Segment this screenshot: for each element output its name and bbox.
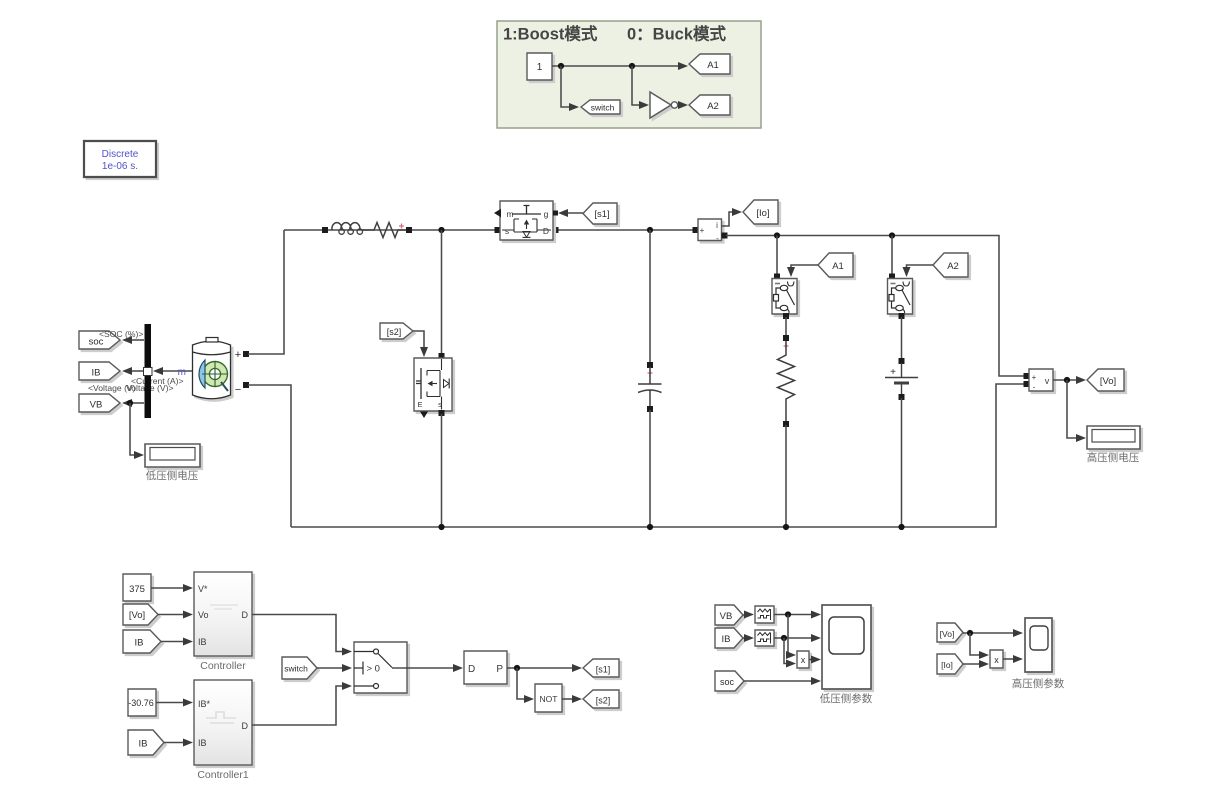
from tag IB scope xyxy=(715,628,745,650)
svg-text:D: D xyxy=(543,226,549,236)
subsystem Controller xyxy=(194,572,254,658)
svg-text:A1: A1 xyxy=(707,60,719,71)
svg-text:[s2]: [s2] xyxy=(596,696,611,706)
wire bus to soc xyxy=(122,336,144,344)
goto tag [Vo] xyxy=(1087,369,1126,393)
wire rail to breaker1 xyxy=(774,236,780,280)
svg-text:IB: IB xyxy=(92,368,101,379)
series resistor zigzag xyxy=(362,223,406,238)
node junction xyxy=(438,524,444,530)
battery - port xyxy=(235,382,249,396)
wire NOT to A2 xyxy=(678,101,688,109)
wire node to mosfet M2 xyxy=(441,230,443,355)
port xyxy=(899,313,905,319)
svg-text:VB: VB xyxy=(90,400,103,411)
goto tag [s2] lower xyxy=(583,690,621,710)
rate transition block D P xyxy=(464,651,509,686)
svg-text:NOT: NOT xyxy=(540,694,558,704)
wire resistor to bottom rail xyxy=(785,425,787,527)
svg-text:[Io]: [Io] xyxy=(941,660,953,670)
wire breaker1 to resistor xyxy=(783,317,789,341)
caption 低压侧参数 xyxy=(820,692,873,705)
goto tag A1 xyxy=(818,253,855,279)
from tag IB lower xyxy=(123,630,163,655)
port xyxy=(783,313,789,319)
port xyxy=(439,353,445,359)
from tag soc scope xyxy=(715,671,746,693)
display block low-voltage-side xyxy=(145,444,202,469)
node junction xyxy=(647,227,653,233)
svg-text:IB: IB xyxy=(139,739,148,750)
wire dc source to bottom rail xyxy=(901,398,903,527)
logical operator NOT xyxy=(535,684,564,714)
svg-text:IB: IB xyxy=(722,634,731,645)
svg-text:+: + xyxy=(235,349,241,361)
from tag [Vo] scope xyxy=(937,623,965,644)
node junction xyxy=(647,524,653,530)
goto tag A2 (legend) xyxy=(689,95,732,117)
mosfet M2 block xyxy=(414,358,454,418)
wire VB to mean1 xyxy=(743,611,754,619)
wire battery m to bus selector xyxy=(153,367,192,375)
port xyxy=(647,406,653,412)
svg-text:IB: IB xyxy=(135,638,144,649)
wire VB branch to product xyxy=(786,615,796,660)
svg-text:[Io]: [Io] xyxy=(756,208,769,219)
scope block low side xyxy=(822,605,873,691)
capacitor C xyxy=(638,367,662,409)
goto tag A1 (legend) xyxy=(689,54,732,76)
port xyxy=(439,410,445,416)
goto tag switch (legend) xyxy=(581,100,622,116)
breaker block A2 xyxy=(888,279,915,317)
svg-text:v: v xyxy=(1045,376,1050,386)
wire IB to controller xyxy=(161,638,193,646)
svg-text:[s1]: [s1] xyxy=(594,209,609,220)
svg-text:1:Boost模式: 1:Boost模式 xyxy=(503,24,598,44)
wire P to [s1] xyxy=(507,664,582,672)
mosfet M1 block xyxy=(494,201,555,242)
caption 高压侧参数 xyxy=(1012,677,1065,690)
bus selector bar xyxy=(144,324,153,418)
battery block xyxy=(193,338,233,402)
port xyxy=(1024,381,1030,387)
port xyxy=(722,233,728,239)
caption Controller xyxy=(200,660,246,672)
wire mean1 to scope xyxy=(774,611,821,619)
goto tag [s1] lower xyxy=(583,659,621,679)
wire battery plus to top rail xyxy=(248,230,284,354)
svg-text:-30.76: -30.76 xyxy=(128,698,154,708)
scope block high side xyxy=(1025,618,1054,674)
goto tag soc xyxy=(79,331,122,351)
wire controller1 D to switch xyxy=(252,682,352,725)
from tag [s2] xyxy=(380,323,415,341)
svg-text:高压侧电压: 高压侧电压 xyxy=(1087,451,1140,464)
svg-text:soc: soc xyxy=(720,677,735,687)
wire product to scope xyxy=(809,656,821,664)
display block high-voltage-side xyxy=(1087,426,1142,451)
wire [s1] to gate g xyxy=(553,209,583,217)
from tag [Io] xyxy=(743,200,780,226)
svg-text:Vo: Vo xyxy=(198,610,209,620)
svg-text:375: 375 xyxy=(129,584,145,595)
product block x xyxy=(797,651,811,670)
wire A2 to breaker2 control xyxy=(903,265,934,277)
wire switch to D-P block xyxy=(407,664,463,672)
wire NOT to [s2] xyxy=(562,695,582,703)
polarity mark xyxy=(399,224,404,229)
port label m xyxy=(178,367,186,378)
svg-text:switch: switch xyxy=(284,664,308,674)
svg-text:低压侧参数: 低压侧参数 xyxy=(820,692,873,705)
signal label Voltage xyxy=(88,383,174,393)
node junction xyxy=(898,524,904,530)
svg-text:D: D xyxy=(468,664,475,675)
svg-text:IB: IB xyxy=(198,738,207,748)
from tag [s1] top xyxy=(583,203,619,226)
wire rail to breaker2 xyxy=(889,236,895,280)
svg-text:i: i xyxy=(716,221,718,230)
node junction xyxy=(889,232,895,238)
polarity mark xyxy=(784,344,789,349)
svg-text:P: P xyxy=(496,664,503,675)
subsystem Controller1 xyxy=(194,680,254,767)
powergui Discrete block xyxy=(84,141,158,179)
svg-text:[s1]: [s1] xyxy=(596,665,611,675)
svg-text:VB: VB xyxy=(720,611,733,622)
from tag VB scope xyxy=(715,605,745,627)
wire to switch tag xyxy=(561,66,579,111)
wire constant 1 to A1 xyxy=(552,62,688,70)
wire switch tag to switch block xyxy=(317,664,352,672)
svg-text:[Vo]: [Vo] xyxy=(1100,376,1116,387)
svg-text:[s2]: [s2] xyxy=(387,327,402,337)
svg-text:A2: A2 xyxy=(707,101,719,112)
svg-text:+: + xyxy=(1032,373,1037,382)
voltage measurement block xyxy=(1029,369,1055,393)
svg-text:> 0: > 0 xyxy=(367,664,380,675)
wire battery minus to bottom rail xyxy=(248,385,291,527)
svg-text:-: - xyxy=(1033,383,1036,392)
svg-text:s: s xyxy=(438,400,442,409)
wire M2 to bottom rail xyxy=(441,414,443,527)
wire sensor i to [Io] xyxy=(722,208,743,226)
node junction on wire xyxy=(558,63,564,69)
port xyxy=(322,227,328,233)
svg-text:IB: IB xyxy=(198,637,207,647)
from tag [Vo] lower xyxy=(123,604,160,627)
signal label SOC xyxy=(99,329,143,339)
wire 375 to controller xyxy=(151,584,193,592)
port xyxy=(693,227,699,233)
port xyxy=(1024,373,1030,379)
svg-text:高压侧参数: 高压侧参数 xyxy=(1012,677,1065,690)
product block x 2 xyxy=(990,650,1005,670)
port s xyxy=(495,227,501,233)
svg-text:-: - xyxy=(716,234,719,243)
wire mean2 to scope xyxy=(774,634,821,642)
port xyxy=(406,227,412,233)
wire controller D to switch xyxy=(252,615,352,656)
svg-text:Discrete: Discrete xyxy=(102,149,139,160)
inductor coil xyxy=(332,223,363,235)
svg-text:switch: switch xyxy=(591,103,615,113)
wire v to [Vo] xyxy=(1053,376,1086,384)
dc voltage source xyxy=(885,363,918,397)
current measurement block xyxy=(698,219,724,243)
wire IB to mean2 xyxy=(743,634,754,642)
svg-text:A1: A1 xyxy=(832,261,844,272)
goto tag IB xyxy=(79,362,122,382)
svg-text:[Vo]: [Vo] xyxy=(940,629,955,639)
wire A1 to breaker1 control xyxy=(787,265,818,277)
svg-text:+: + xyxy=(700,226,705,235)
svg-text:A2: A2 xyxy=(947,261,959,272)
from tag switch lower xyxy=(282,657,319,681)
mean block 1 xyxy=(755,606,776,625)
wire -30.76 to controller1 xyxy=(156,699,193,707)
wire v to display2 xyxy=(1067,380,1086,442)
polarity mark xyxy=(648,371,653,376)
wire top rail right xyxy=(726,236,1026,377)
wire IB branch to product xyxy=(784,638,796,668)
svg-text:s: s xyxy=(505,226,509,236)
signal label Current xyxy=(131,376,184,386)
svg-text:D: D xyxy=(242,610,249,620)
wire bus to IB xyxy=(122,367,144,375)
svg-text:1: 1 xyxy=(537,62,543,73)
svg-text:[Vo]: [Vo] xyxy=(129,610,145,621)
node junction on wire xyxy=(629,63,635,69)
port D xyxy=(553,227,559,233)
wire capacitor to bottom rail xyxy=(649,410,651,527)
caption 低压侧电压 xyxy=(146,469,199,482)
wire to NOT gate xyxy=(632,66,649,109)
wire soc to scope xyxy=(744,677,821,685)
svg-text:E: E xyxy=(417,400,422,409)
wire [Io] to product2 xyxy=(963,660,989,668)
caption Controller1 xyxy=(197,769,249,781)
svg-text:x: x xyxy=(801,655,806,665)
node junction xyxy=(783,524,789,530)
wire bus to VB xyxy=(122,399,144,407)
wire breaker2 to dc source xyxy=(899,317,905,364)
battery + port xyxy=(235,349,249,361)
svg-text:x: x xyxy=(994,655,999,665)
svg-text:0：Buck模式: 0：Buck模式 xyxy=(627,24,727,44)
wire VB branch to display xyxy=(127,400,144,459)
wire [Vo] to scope2 xyxy=(963,629,1023,637)
svg-text:<SOC (%)>: <SOC (%)> xyxy=(99,329,143,339)
wire IB to controller1 xyxy=(164,739,193,747)
svg-text:V*: V* xyxy=(198,584,208,594)
port xyxy=(647,362,653,368)
mean block 2 xyxy=(755,630,776,648)
port xyxy=(783,421,789,427)
switch block xyxy=(354,642,409,695)
load resistor R xyxy=(778,341,795,423)
svg-text:g: g xyxy=(544,209,549,219)
goto tag A2 xyxy=(933,253,970,279)
wire bottom rail xyxy=(291,384,1026,527)
svg-text:IB*: IB* xyxy=(198,699,211,709)
svg-text:低压侧电压: 低压侧电压 xyxy=(146,469,199,482)
wire top rail left xyxy=(284,229,695,231)
wire [Vo] to controller xyxy=(158,611,193,619)
annotation area mode legend box xyxy=(497,21,761,128)
svg-text:+: + xyxy=(890,367,896,378)
wire P to NOT xyxy=(517,668,534,703)
goto tag VB xyxy=(79,394,122,414)
wire [Vo] branch to product2 xyxy=(970,633,989,659)
from tag [Io] scope xyxy=(937,654,965,676)
node junction xyxy=(774,232,780,238)
svg-text:Controller1: Controller1 xyxy=(197,769,249,781)
wire node to capacitor xyxy=(649,230,651,365)
wire product2 to scope2 xyxy=(1003,655,1023,663)
svg-text:m: m xyxy=(178,367,186,378)
logical NOT gate (legend) xyxy=(650,92,678,120)
from tag IB lower2 xyxy=(128,730,166,757)
constant 375 xyxy=(123,574,153,603)
node junction xyxy=(438,227,444,233)
svg-text:1e-06 s.: 1e-06 s. xyxy=(102,161,138,172)
svg-text:−: − xyxy=(235,384,241,396)
wire [s2] to gate of M2 xyxy=(413,331,428,357)
svg-text:Controller: Controller xyxy=(200,660,246,672)
breaker block A1 xyxy=(772,279,799,317)
svg-text:D: D xyxy=(242,721,249,731)
constant -30.76 xyxy=(128,689,158,718)
port xyxy=(899,394,905,400)
annotation title text xyxy=(503,24,727,44)
caption 高压侧电压 xyxy=(1087,451,1140,464)
constant block 1 xyxy=(527,53,554,82)
